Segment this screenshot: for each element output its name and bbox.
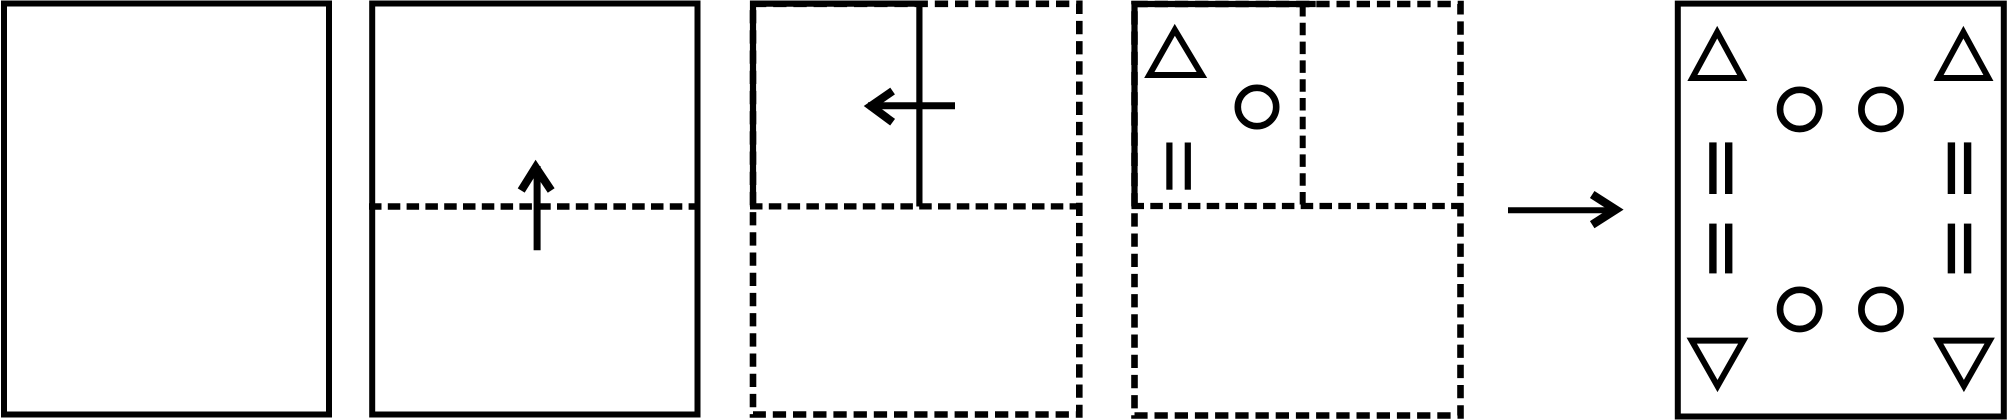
panel 3: left arrow head	[871, 91, 893, 122]
panel 4: punched triangle symbol	[1149, 30, 1202, 75]
panel 5: down triangle, bottom-left	[1692, 341, 1744, 386]
panel 5: upper-left double-bar, bar 1	[1709, 142, 1716, 194]
panel 4: punched double-bar symbol, bar 2	[1185, 143, 1191, 190]
panel 2: up arrow shaft	[534, 166, 541, 250]
panel 2: horizontal fold line (dashed)	[369, 203, 701, 210]
panel 5: up triangle, top-left	[1692, 32, 1742, 78]
panel 2: up arrow head	[521, 167, 551, 190]
panel 4: punched double-bar symbol, bar 1	[1166, 143, 1172, 190]
panel 5: up triangle, top-right	[1939, 32, 1989, 78]
panel 5: lower-left double-bar, bar 2	[1725, 224, 1732, 274]
panel 5: upper-right double-bar, bar 1	[1948, 142, 1955, 194]
panel 5: upper-left double-bar, bar 2	[1725, 142, 1732, 194]
panel 5: down triangle, bottom-right	[1938, 341, 1990, 386]
panel 4: dashed vertical fold line between quadrants	[1300, 4, 1306, 206]
result arrow head	[1592, 195, 1616, 225]
result arrow shaft	[1508, 207, 1614, 213]
panel 4: solid folded quadrant edges (left and top)	[1135, 4, 1316, 209]
panel 5: circle, bottom-right of center	[1861, 290, 1900, 329]
panel 3: solid folded top-left quadrant (left, top, right edges)	[753, 4, 919, 207]
panel 4: dashed middle fold line	[1132, 203, 1464, 209]
panel 1: blank folded paper, solid border	[4, 4, 329, 415]
panel 3: dashed unfolded outline	[753, 4, 1079, 415]
panel 3: left arrow shaft	[868, 102, 955, 109]
panel 2: paper border	[372, 4, 697, 415]
panel 4: dashed unfolded outline	[1135, 4, 1461, 416]
panel 5: circle, top-right of center	[1861, 90, 1900, 129]
panel 5: circle, top-left of center	[1780, 90, 1819, 129]
panel 5: upper-right double-bar, bar 2	[1964, 142, 1971, 194]
panel 5: answer paper border	[1678, 4, 2004, 417]
panel 5: circle, bottom-left of center	[1780, 290, 1819, 329]
panel 5: lower-right double-bar, bar 2	[1964, 224, 1971, 274]
panel 3: dashed middle fold line	[750, 203, 1082, 209]
panel 4: punched circle symbol	[1238, 88, 1276, 126]
panel 5: lower-right double-bar, bar 1	[1948, 224, 1955, 274]
panel 5: lower-left double-bar, bar 1	[1709, 224, 1716, 274]
